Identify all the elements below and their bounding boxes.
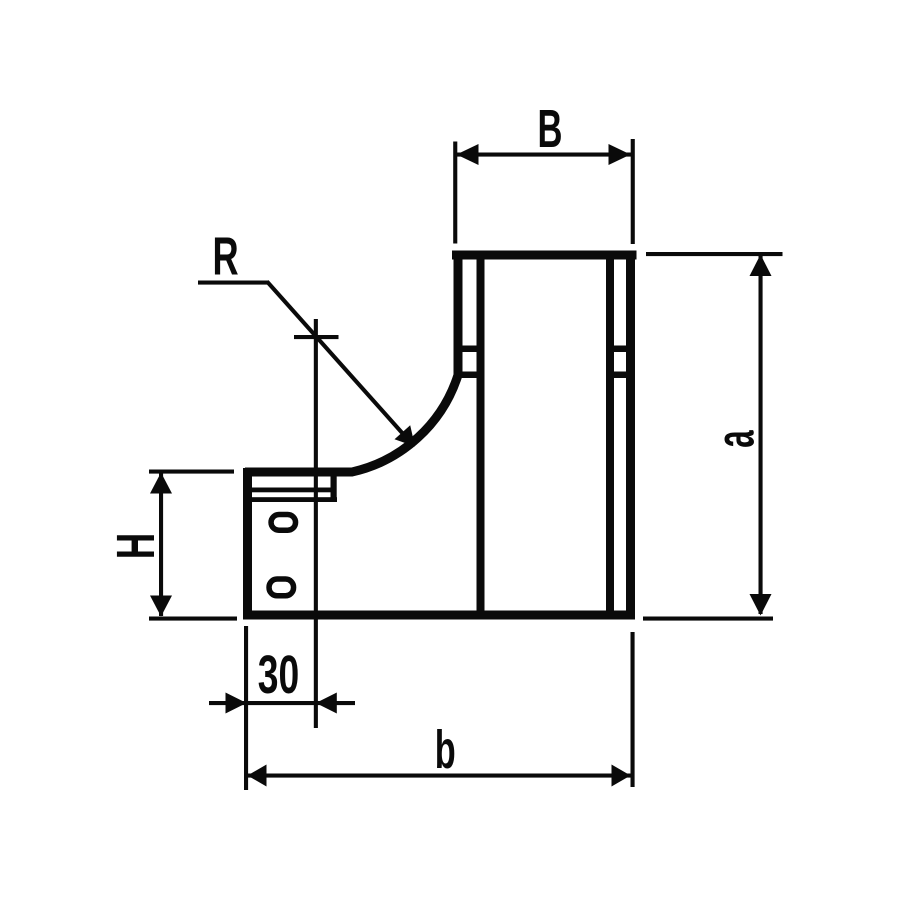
dimension H arrow bottom bbox=[150, 596, 172, 617]
dimension a extension top bbox=[646, 252, 783, 256]
flange detail line upper bbox=[251, 488, 332, 493]
part bottom edge bbox=[243, 611, 635, 620]
svg-text:B: B bbox=[538, 98, 563, 159]
part right outer wall bbox=[626, 251, 635, 620]
dimension a extension bottom bbox=[643, 617, 773, 621]
svg-text:b: b bbox=[435, 719, 456, 780]
dimension B extension right bbox=[631, 139, 635, 244]
flange detail step bbox=[331, 474, 337, 502]
dimension H extension top bbox=[149, 470, 234, 474]
dimension B line bbox=[456, 153, 631, 157]
dimension B extension left bbox=[453, 142, 457, 244]
radius center cross mark bbox=[294, 335, 339, 339]
svg-text:H: H bbox=[105, 533, 166, 560]
left seam rung lower bbox=[456, 372, 481, 379]
dimension B arrow left bbox=[457, 144, 479, 165]
dimension H line bbox=[159, 473, 163, 616]
dimension H extension bottom bbox=[149, 617, 237, 621]
dimension H arrow top bbox=[150, 473, 172, 494]
dimension b line bbox=[247, 774, 631, 778]
duct right inner line bbox=[606, 255, 614, 615]
svg-text:R: R bbox=[212, 225, 238, 286]
dimension 30 arrow left (outside, pointing right) bbox=[226, 693, 247, 714]
dimension a arrow top bbox=[750, 255, 772, 277]
dimension 30 line with outside tails bbox=[209, 701, 355, 705]
dimension b arrow right bbox=[612, 765, 631, 787]
dimension B arrow right bbox=[609, 144, 631, 165]
flange hole upper bbox=[271, 514, 296, 530]
R leader arrowhead on fillet bbox=[395, 425, 416, 446]
flange left edge bbox=[243, 468, 252, 620]
dimension b extension left bbox=[244, 626, 248, 790]
flange detail line lower bbox=[251, 497, 337, 502]
dimension a arrow bottom bbox=[750, 594, 772, 616]
part top edge bbox=[452, 251, 637, 260]
dimension b extension right bbox=[631, 632, 635, 787]
outer profile: flange top, fillet curve, duct left wall bbox=[245, 255, 458, 472]
dimension b arrow left bbox=[248, 765, 267, 787]
dimension a line bbox=[759, 255, 763, 614]
left seam rung upper bbox=[456, 346, 481, 353]
centerline through radius center down to 30 dimension bbox=[314, 319, 318, 728]
svg-text:a: a bbox=[706, 430, 766, 448]
R leader horizontal segment bbox=[198, 281, 269, 285]
dimension 30 arrow right (outside, pointing left) bbox=[316, 693, 337, 714]
flange hole lower bbox=[269, 579, 294, 596]
R leader diagonal segment bbox=[267, 282, 404, 436]
svg-text:30: 30 bbox=[258, 644, 299, 705]
right seam rung upper bbox=[608, 346, 631, 353]
right seam rung lower bbox=[608, 372, 631, 379]
duct left inner line bbox=[477, 255, 485, 615]
